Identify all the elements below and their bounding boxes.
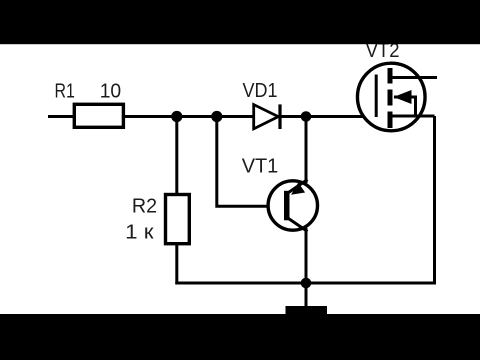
svg-text:1 к: 1 к (125, 221, 155, 244)
body connection (394, 97, 416, 116)
svg-text:10: 10 (100, 80, 122, 103)
node dot4 (ground junction) (301, 278, 312, 289)
resistor R2 (166, 195, 190, 244)
wire: right rail from VT2 source (433, 116, 436, 285)
node dot3 (301, 111, 312, 122)
drain line (390, 76, 437, 79)
top letterbox bar (0, 0, 480, 44)
channel segments (388, 68, 393, 84)
transistor VT1 (268, 180, 317, 232)
gate line (375, 75, 378, 118)
body arrow (394, 90, 412, 104)
svg-text:VD1: VD1 (243, 79, 278, 102)
MOSFET VT2 (357, 63, 437, 131)
wire: VT1 emitter up to node (305, 117, 308, 184)
svg-text:R2: R2 (132, 194, 157, 217)
svg-text:R1: R1 (55, 80, 75, 103)
wire: bottom rail (175, 282, 434, 285)
wire: main top rail (48, 115, 376, 118)
node dot2 (211, 111, 222, 122)
node dot1 (171, 111, 182, 122)
wire: VT1 collector down (305, 228, 308, 283)
diode VD1 (254, 104, 280, 129)
wire: dot1 down to R2 (175, 117, 178, 195)
wire: R2 bottom down (175, 244, 178, 285)
ground (286, 306, 328, 316)
resistor R1 (74, 104, 123, 127)
bottom letterbox bar (0, 314, 480, 360)
wire: ground stub (305, 283, 308, 308)
wire: dot2 to VT1 base (217, 117, 284, 207)
source line (390, 115, 435, 118)
svg-text:VT1: VT1 (242, 155, 279, 178)
